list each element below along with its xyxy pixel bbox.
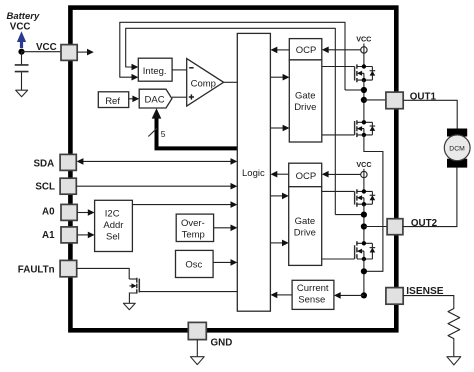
arrow A1 into I2C Addr Sel: [88, 232, 95, 239]
wire Osc to Logic: [213, 261, 233, 263]
wire Gate Drive 2 to M3 gate: [322, 190, 355, 192]
arrow Over-Temp to Logic: [231, 225, 238, 232]
svg-text:SCL: SCL: [35, 182, 55, 193]
wire M1 source down: [363, 80, 365, 122]
wire OCP1 to Logic: [277, 49, 290, 51]
wire Over-Temp to Logic: [214, 227, 233, 229]
motor DCM terminal bottom: [447, 159, 467, 168]
wire OUT2 feedback join: [335, 214, 361, 216]
svg-text:DAC: DAC: [145, 94, 165, 105]
node OUT1: [361, 97, 367, 103]
current sense block: [292, 280, 334, 309]
wire Gate Drive 2 to M4 gate: [322, 258, 355, 260]
I2C address select block: [95, 200, 133, 251]
arrow Ref to DAC: [132, 96, 139, 103]
svg-text:5: 5: [161, 129, 166, 139]
wire Logic to Gate Drive 1 input B: [270, 127, 285, 129]
svg-text:Temp: Temp: [182, 230, 205, 241]
svg-text:Sense: Sense: [298, 295, 325, 306]
wire OUT2 to motor: [403, 167, 457, 227]
svg-text:I2C: I2C: [105, 209, 120, 220]
wire battery node to VCC pin: [22, 51, 62, 53]
arrow into Integ lower input: [132, 74, 139, 81]
svg-text:Sel: Sel: [106, 232, 120, 243]
wire A0 to I2C Addr Sel: [77, 212, 90, 214]
pin OUT2: [387, 219, 403, 235]
wire capacitor to ground: [21, 72, 23, 90]
pin plus Comp: [189, 94, 194, 99]
arrow OCP1 into Logic: [271, 47, 278, 54]
node OUT2: [361, 223, 367, 229]
wire Ref to DAC: [129, 98, 134, 100]
pin minus Comp: [189, 67, 193, 69]
svg-text:OUT2: OUT2: [411, 218, 438, 229]
resistor Rsense: [448, 305, 460, 342]
arrow Current Sense into Logic: [271, 292, 278, 299]
arrow I2C to Logic: [231, 201, 238, 208]
ground battery: [16, 90, 28, 97]
capacitor C1 lead: [21, 52, 23, 65]
pin SDA: [60, 154, 76, 170]
wire Logic to Gate Drive 2 input A: [270, 195, 284, 197]
svg-text:FAULTn: FAULTn: [18, 264, 55, 275]
svg-text:VCC: VCC: [36, 42, 57, 53]
ground GND pin: [190, 357, 204, 365]
wire OUT1 to motor: [403, 100, 457, 129]
svg-text:Drive: Drive: [294, 102, 316, 113]
arrow into Gate Drive 1 input A: [283, 74, 290, 81]
wire VCC1 to M1 drain: [363, 44, 365, 67]
arrow SDA to Logic: [231, 158, 238, 165]
logic block Logic: [237, 33, 270, 311]
transistor M1 (high-side bridge 1): [355, 64, 376, 82]
svg-text:A1: A1: [42, 230, 55, 241]
IC boundary: [70, 8, 396, 331]
power terminal VCC bridge 2: [361, 171, 367, 177]
pin OUT1: [386, 92, 403, 109]
wire M3 source down: [363, 204, 365, 243]
motor DCM terminal top: [447, 129, 467, 137]
arrow OCP2 into Logic: [271, 171, 278, 178]
pin A0: [61, 204, 77, 220]
svg-text:Battery: Battery: [7, 11, 40, 22]
svg-text:VCC: VCC: [356, 160, 371, 169]
gate drive block 1: [289, 60, 322, 142]
wire ISENSE node to Current Sense: [340, 294, 364, 296]
wire OUT1 node to pin: [364, 99, 386, 101]
wire SDA bidirectional: [81, 160, 233, 162]
DAC U2: [139, 89, 172, 108]
svg-text:Addr: Addr: [103, 220, 123, 231]
pin A1: [61, 227, 77, 243]
pin SCL: [60, 178, 76, 194]
svg-text:Ref: Ref: [105, 96, 120, 107]
arrow into Integ upper input: [132, 64, 139, 71]
arrow into Gate Drive 2 input A: [282, 193, 289, 200]
svg-text:Current: Current: [297, 283, 329, 294]
arrow into Current Sense: [334, 292, 341, 299]
transistor M2 (low-side bridge 1): [355, 120, 376, 137]
arrow SDA to pin: [77, 158, 84, 165]
ground sense resistor: [447, 357, 461, 365]
node ISENSE: [361, 292, 367, 298]
arrow VCC sense into OCP2: [322, 171, 329, 178]
arrow VCC internal: [87, 49, 94, 56]
svg-text:Osc: Osc: [185, 259, 202, 270]
battery VCC supply arrow: [17, 31, 26, 48]
wire SCL to Logic: [76, 185, 233, 187]
svg-text:VCC: VCC: [10, 22, 31, 33]
wire Comp output to Logic: [224, 81, 238, 83]
wire GND pin to ground: [196, 340, 198, 357]
op-amp Comp: [187, 59, 224, 106]
arrow Osc to Logic: [231, 259, 238, 266]
wire Gate Drive 1 to M1 gate: [322, 66, 355, 68]
pin FAULTn: [60, 260, 77, 276]
svg-text:GND: GND: [211, 338, 233, 349]
transistor M4 (low-side bridge 2): [355, 241, 376, 261]
node battery VCC junction: [18, 49, 24, 55]
wire VCC pin internal: [77, 51, 88, 53]
wire OUT2 node to pin: [364, 226, 387, 228]
bus width slash: [148, 128, 157, 136]
wire M4 source to ISENSE node: [363, 259, 365, 295]
svg-text:Logic: Logic: [242, 168, 265, 179]
wire ISENSE to sense resistor: [403, 296, 454, 306]
wire A1 to I2C Addr Sel: [77, 234, 90, 236]
wire Current Sense to Logic: [277, 294, 292, 296]
arrow bus into DAC: [152, 108, 162, 118]
arrow VCC sense into OCP1: [322, 47, 329, 54]
wire Logic to Gate Drive 1 input A: [270, 76, 285, 78]
wire Gate Drive 1 to M2 gate: [322, 134, 355, 136]
OCP block 2: [289, 163, 322, 187]
bus 5-bit Logic to DAC: [157, 113, 238, 148]
power terminal VCC bridge 1: [361, 47, 367, 53]
svg-text:Gate: Gate: [295, 91, 316, 102]
wire FAULTn to open-drain FET: [77, 268, 130, 279]
wire OCP2 to Logic: [277, 173, 289, 175]
wire OUT1 feedback (top line to Integ lower input): [120, 22, 345, 90]
svg-text:Drive: Drive: [294, 227, 316, 238]
wire Logic to Gate Drive 2 input B: [270, 242, 284, 244]
integrator box Integ: [138, 58, 172, 81]
transistor M3 (high-side bridge 2): [355, 189, 376, 207]
arrow SCL to Logic: [231, 183, 238, 190]
arrow into Gate Drive 2 input B: [282, 240, 289, 247]
svg-text:Over-: Over-: [181, 218, 205, 229]
capacitor C1: [15, 65, 29, 72]
transistor Q1 open-drain FET: [129, 278, 139, 304]
wire VCC1 sense to OCP1: [328, 49, 361, 51]
pin ISENSE: [386, 288, 403, 305]
node OUT2 feedback tap: [361, 212, 367, 218]
reference box Ref: [98, 92, 128, 108]
wire FAULTn FET gate to Logic: [139, 291, 237, 293]
wire M2 source to ISENSE rail: [364, 135, 383, 271]
svg-text:Comp: Comp: [191, 79, 216, 90]
svg-text:OCP: OCP: [296, 45, 317, 56]
svg-text:SDA: SDA: [34, 159, 55, 170]
svg-text:Gate: Gate: [295, 216, 316, 227]
over-temperature block: [176, 214, 213, 241]
wire DAC to Comp non-inverting input: [172, 96, 187, 98]
wire OUT2 feedback (second line to Integ upper input): [126, 28, 336, 214]
svg-text:DCM: DCM: [449, 145, 465, 152]
svg-text:A0: A0: [42, 206, 55, 217]
wire resistor to ground: [453, 342, 455, 357]
svg-text:Integ.: Integ.: [143, 66, 167, 77]
wire VCC2 to M3 drain: [363, 169, 365, 192]
gate drive block 2: [289, 187, 322, 266]
pin GND: [188, 322, 206, 339]
arrow A0 into I2C Addr Sel: [88, 209, 95, 216]
svg-text:OCP: OCP: [296, 171, 317, 182]
wire Integ output to Comp inverting input: [172, 69, 187, 71]
arrow into Gate Drive 1 input B: [283, 125, 290, 132]
OCP block 1: [289, 39, 322, 60]
pin VCC: [61, 45, 77, 61]
ground FAULTn FET: [123, 303, 135, 309]
node OUT1 feedback tap: [361, 87, 367, 93]
wire OUT1 feedback join: [345, 89, 361, 91]
oscillator block Osc: [176, 250, 214, 277]
wire I2C Addr Sel to Logic: [132, 204, 233, 206]
motor DCM: [444, 135, 470, 161]
node low-side source join: [361, 268, 367, 274]
wire VCC2 sense to OCP2: [328, 173, 361, 175]
svg-text:VCC: VCC: [356, 35, 371, 44]
